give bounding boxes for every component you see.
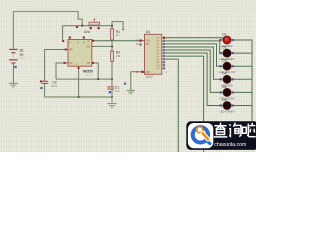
svg-text:U2a: U2a [84,30,90,34]
pin state: floating node (blue) [124,83,126,85]
LED D2 [219,46,234,62]
pin state: 555 pin8 top (red) [83,36,85,38]
capacitor C2 [41,81,48,84]
pin state: 555 Q out (red) [92,40,94,42]
svg-text:EN: EN [146,43,150,46]
pin state: 4017 MR (red) [141,71,143,73]
svg-text:47k: 47k [116,54,121,58]
counter 4017 U1 body [145,34,162,74]
watermark box [186,121,258,150]
LED D6 [219,98,234,114]
svg-text:CV: CV [69,62,73,65]
potentiometer RV (horizontal box with wiper) [89,22,100,25]
wire: main horizontal node wire at y=25.7 [63,25,112,27]
wire: CV pin hook down to node row [56,63,66,79]
4017 left pin CLK stub [143,40,145,42]
svg-text:chaxunla.com: chaxunla.com [214,142,246,148]
555 top pin stubs [70,37,84,39]
svg-text:D5: D5 [222,85,226,89]
svg-text:D1: D1 [222,32,226,36]
svg-text:1uF: 1uF [115,89,120,93]
wire: battery positive up + top VCC rail + drop to 555 area [13,12,82,49]
battery plate short 2 [11,62,15,63]
4017 output labels Q0..CO inside right edge [156,38,160,70]
555 right pin stubs [92,41,94,63]
pin state: C2 top (red) [40,80,42,82]
555 internal pin numbers and labels [69,40,90,66]
op-amp 555 timer U2 body [68,40,92,67]
wire: left branch down to 555 area pin [62,26,64,41]
battery cell dotted link [12,54,14,59]
pin state: pot right (red) [98,27,100,29]
watermark hanzi la [242,123,255,137]
wire: C2 bottom to ground rail [45,84,112,97]
wire: Q4 to LED D5 [165,50,223,92]
resistor R2 [111,51,114,61]
svg-text:CO: CO [156,68,160,70]
pin state: C1 bottom (blue) [109,91,111,93]
pin state: C2 bottom (blue) [40,87,42,89]
node: wire end blob [122,29,124,31]
wire: Q2 to LED D3 [165,44,223,66]
svg-text:<TEXT>: <TEXT> [19,57,27,60]
svg-text:U1: U1 [146,30,150,34]
svg-text:D6: D6 [222,98,226,102]
node: junction R2/C1 at 112,79.1 [111,78,113,80]
node: junction TH at 98.2,79.1 [97,78,99,80]
watermark logo Q tail [206,140,210,144]
svg-text:TH: TH [87,62,90,65]
pin state: wire end left (red) [62,40,64,42]
svg-text:D4: D4 [222,72,226,76]
wire: 555 GND pin down to rail [78,66,80,97]
svg-text:<TEXT>: <TEXT> [85,73,93,76]
svg-text:MR: MR [146,71,150,74]
wire: 555 OUT to 4017 CLK [92,40,143,42]
wire: TR pin to C2 top [45,50,66,82]
background sheet [0,0,256,152]
pin state: Q1..CO (blue) [163,40,165,70]
wire: Q1 to LED D2 [165,41,223,53]
wire: Q3 to LED D4 [165,47,223,79]
watermark hanzi cha [214,123,228,137]
pin state: 555 GND (red) [78,67,80,69]
pin state: pot left (red) [90,27,92,29]
watermark logo orange magnifier ring [197,127,203,133]
svg-text:D3: D3 [222,59,226,63]
svg-text:LED-YELLOW: LED-YELLOW [219,70,236,74]
svg-text:Q: Q [88,40,90,43]
wire: Q6 down [165,56,203,152]
ground: 4017 MR [127,90,135,94]
watermark logo blue Q ring [193,127,208,142]
pin state: 555 pin4 top (red) [69,36,71,38]
LED D5 [219,85,234,101]
wire: 555 DC to R1/R2 junction [92,45,112,47]
wiper arrow [93,19,95,22]
svg-text:DC: DC [87,46,91,49]
4017 left pin MR stub + wire to ground [131,72,145,91]
pin state: 4017 EN (blue) [139,43,141,45]
wire: battery negative to ground [12,64,14,84]
555 left pin stubs [66,50,68,63]
LED D1 (lit) [220,32,234,48]
pin state: 555 TH (red) [92,62,94,64]
svg-text:10nF: 10nF [51,84,58,88]
wire: 555 TH right and down [92,63,98,79]
node: junction R1/R2/DC at 112,46.6 [111,46,113,48]
svg-text:B1: B1 [20,48,24,52]
pin state: 555 TR (red) [65,49,67,51]
battery B1 [9,49,18,64]
pin state: Q0 (red, active) [163,37,165,39]
pin state: 4017 CLK (red) [139,40,141,42]
watermark hanzi xun [229,123,241,137]
svg-text:LED-GREEN: LED-GREEN [219,110,234,114]
pin state: 555 CV (red) [64,62,66,64]
battery plate long 1 [9,49,18,50]
watermark logo orange handle [203,133,208,139]
svg-text:4017: 4017 [146,75,153,79]
node: junction GND rail at 78.6,97 [78,96,80,98]
4017 left pin numbers [136,40,139,74]
svg-text:NE555: NE555 [83,69,93,73]
node: junction at 82.2,25.7 [81,25,83,27]
wire: detour to dead-end pin at (123,29.5) [112,22,123,30]
resistor R1 leads [111,26,113,79]
watermark logo white tile [188,123,213,148]
wire: Q5 to LED D6 [165,53,223,105]
wire: Q7 down [165,59,178,152]
ground: battery [9,83,18,87]
battery plate long 2 [9,59,18,60]
wire: LED cathode bus [233,40,252,122]
pin state: battery negative (blue) [14,66,16,68]
4017 inside pin labels [146,40,151,74]
battery plate short 1 [11,52,15,53]
resistor R1 [111,29,114,40]
ground: below rail at x=112 [107,97,116,108]
555 bottom GND stub [78,66,80,68]
grid dots overlay [0,0,256,152]
wire: node row joining CV hook, TH, R2 bottom, C1 top [56,78,112,80]
4017 right pin stubs [162,38,163,69]
LED D3 [219,59,236,75]
node: junction rail end / C1 / ground at 112,97 [111,96,113,98]
wire: Q0 to LED D1 [165,38,223,40]
capacitor C1 [107,86,114,89]
svg-text:D2: D2 [222,46,226,50]
pin state: node left of junction (red) [76,26,78,28]
capacitor C1 leads [111,79,113,97]
node: junction at 112,25.7 [111,25,113,27]
LED D4 [220,72,234,88]
svg-text:TR: TR [69,49,72,52]
